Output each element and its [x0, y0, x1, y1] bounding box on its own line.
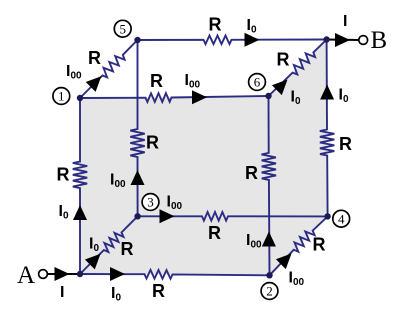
- svg-text:3: 3: [147, 195, 154, 210]
- svg-text:R: R: [313, 235, 326, 255]
- terminal B lead wire: [327, 39, 359, 42]
- svg-text:R: R: [146, 133, 159, 153]
- node 5 junction: [134, 37, 140, 43]
- current arrow I00 on back left vertical: [131, 170, 145, 185]
- current arrow I00 on front right vertical: [262, 232, 276, 247]
- shaded inner face: [80, 40, 328, 276]
- svg-text:R: R: [245, 163, 258, 183]
- svg-text:R: R: [152, 281, 165, 301]
- wire: front left vertical edge node 1 to node A corner, with resistor: [73, 98, 87, 274]
- current arrow I at terminal B: [335, 33, 350, 47]
- current arrow I0 on front left vertical: [73, 205, 87, 220]
- node 2 junction: [266, 272, 272, 278]
- current arrow I00 on diagonal 2-4: [276, 254, 292, 270]
- wire: right back vertical edge node B corner to node 4, with resistor: [320, 40, 335, 217]
- svg-text:I: I: [60, 284, 64, 301]
- svg-text:A: A: [17, 262, 35, 289]
- current arrow I0 on right back vertical: [320, 85, 334, 100]
- current arrow I00 on back bottom edge: [160, 209, 175, 223]
- node 6 junction: [265, 93, 271, 99]
- node label 4: [333, 210, 350, 227]
- current arrow I0 on front bottom edge: [110, 267, 125, 281]
- svg-text:R: R: [121, 239, 134, 259]
- wire: diagonal edge node 1 to node 5, with resistor: [80, 40, 138, 98]
- node B corner junction: [323, 36, 329, 42]
- svg-text:R: R: [88, 48, 101, 68]
- svg-text:6: 6: [254, 75, 261, 90]
- svg-text:I: I: [343, 13, 347, 30]
- terminal A lead wire: [48, 273, 80, 275]
- current arrow I0 on diagonal A-3: [85, 254, 101, 270]
- svg-text:5: 5: [119, 21, 126, 36]
- wire: diagonal edge node A corner to node 3, with resistor: [80, 216, 138, 274]
- node label 5: [114, 20, 131, 37]
- terminal B open circle: [359, 36, 368, 45]
- node label 2: [261, 283, 278, 300]
- node 4 junction: [324, 213, 330, 219]
- svg-text:R: R: [150, 71, 163, 91]
- svg-text:R: R: [208, 223, 221, 243]
- svg-text:R: R: [339, 134, 352, 154]
- wire: top back edge node 5 to node B corner, with resistor: [138, 36, 327, 45]
- current arrow I0 on top back edge: [245, 33, 260, 47]
- node label 6: [249, 74, 266, 91]
- node label 1: [53, 88, 70, 105]
- current arrow I00 on front top edge: [192, 90, 207, 104]
- svg-text:4: 4: [338, 211, 345, 226]
- wire: back left vertical edge node 5 to node 3, with resistor: [130, 40, 144, 216]
- wire: diagonal edge node 6 to node B corner, with resistor: [269, 40, 327, 97]
- node 3 junction: [134, 213, 140, 219]
- current arrow I at terminal A: [55, 267, 70, 281]
- current arrow I0 on diagonal 6-B: [272, 80, 288, 96]
- wire: front bottom edge node A corner to node 2, with resistor: [80, 270, 270, 279]
- svg-text:R: R: [209, 15, 222, 35]
- svg-text:R: R: [57, 165, 70, 185]
- svg-text:B: B: [371, 27, 388, 54]
- svg-text:1: 1: [58, 89, 65, 104]
- node 1 junction: [77, 95, 83, 101]
- wire: front top edge node 1 to node 6, with resistor: [80, 93, 269, 102]
- wire: diagonal edge node 2 to node 4, with resistor: [270, 216, 328, 275]
- svg-text:2: 2: [266, 284, 273, 299]
- node label 3: [142, 194, 159, 211]
- svg-text:R: R: [277, 50, 290, 70]
- node A corner junction: [77, 271, 83, 277]
- wire: front right vertical edge node 6 to node 2, with resistor: [262, 96, 277, 275]
- current arrow I00 on diagonal 1-5: [86, 76, 102, 92]
- terminal A open circle: [39, 270, 48, 279]
- wire: back bottom edge node 3 to node 4, with resistor: [138, 212, 328, 221]
